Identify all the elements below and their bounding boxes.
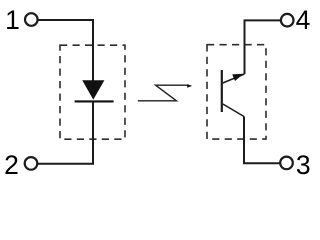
terminal pin 2 (25, 157, 38, 170)
svg-text:2: 2 (4, 150, 19, 180)
wire pin1 to LED anode (38, 20, 93, 81)
phototransistor Q collector diagonal with arrow (223, 74, 245, 83)
LED D (anode triangle) (82, 80, 104, 99)
svg-text:3: 3 (296, 150, 311, 180)
pin label 2 (4, 150, 19, 180)
phototransistor base bar (221, 70, 223, 112)
pin label 1 (5, 5, 20, 35)
LED package dashed outline (60, 45, 125, 139)
terminal pin 4 (281, 14, 294, 27)
wire LED cathode to pin 2 (38, 102, 93, 164)
svg-text:1: 1 (5, 5, 20, 35)
pin label 4 (296, 5, 311, 35)
phototransistor package dashed outline (207, 45, 266, 139)
wire emitter to pin 3 (244, 117, 280, 164)
terminal pin 1 (25, 13, 38, 26)
LED cathode bar (75, 100, 114, 102)
terminal pin 3 (280, 157, 293, 170)
svg-text:4: 4 (296, 5, 311, 35)
wire pin4 to collector (245, 20, 281, 74)
phototransistor emitter diagonal (223, 104, 244, 117)
pin label 3 (296, 150, 311, 180)
light transfer arrow (zigzag) (138, 84, 192, 101)
